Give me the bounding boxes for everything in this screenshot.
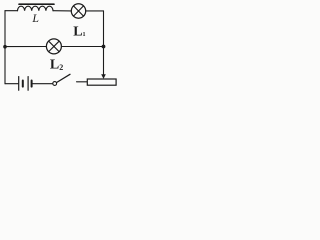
lamp L2 (46, 39, 61, 54)
node junction left (middle wire to left wire) (3, 45, 7, 49)
wire top right segment (86, 10, 104, 12)
wire battery to switch (33, 83, 53, 85)
switch S (open) (53, 74, 70, 85)
label L (inductor) (31, 11, 39, 25)
svg-text:L: L (31, 11, 39, 25)
label L1 (lamp 1) (73, 25, 85, 40)
rheostat wiper arrow (101, 74, 106, 79)
wire middle left segment (5, 46, 46, 48)
battery (19, 77, 32, 91)
wire left vertical (4, 11, 6, 84)
wire switch to rheostat (77, 81, 88, 83)
wire middle right segment (61, 46, 103, 48)
wire top left segment (5, 10, 18, 12)
node junction right (middle wire to right wire) (102, 45, 106, 49)
rheostat R (box) (87, 79, 116, 85)
wire right vertical lower (to rheostat wiper) (103, 47, 105, 75)
lamp L1 (71, 4, 85, 18)
label L2 (lamp 2) (50, 58, 63, 73)
inductor L (18, 4, 55, 11)
wire bottom left segment (5, 83, 18, 85)
wire right vertical upper (103, 11, 105, 47)
wire top middle segment (53, 10, 71, 12)
